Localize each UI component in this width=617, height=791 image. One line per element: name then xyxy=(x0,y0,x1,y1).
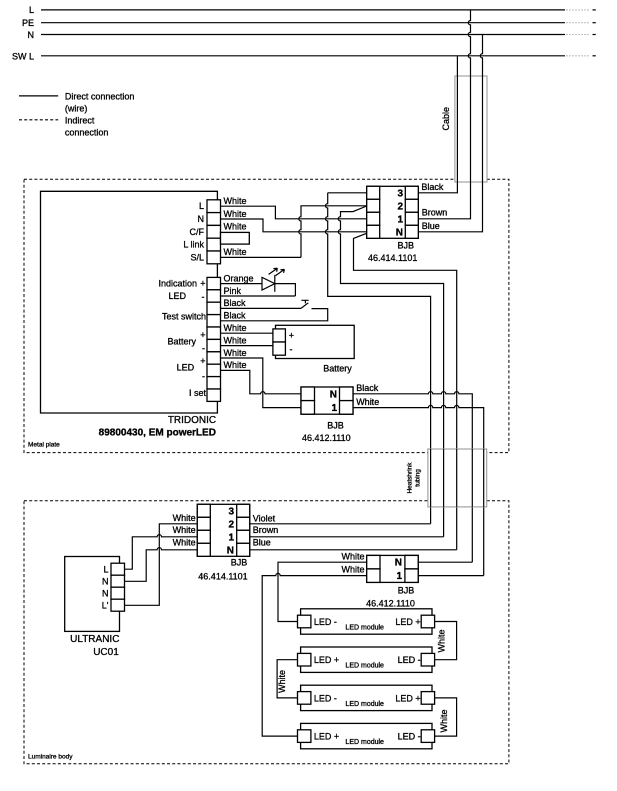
svg-text:BJB: BJB xyxy=(397,240,414,250)
svg-text:White: White xyxy=(173,538,196,548)
svg-text:LED -: LED - xyxy=(314,693,337,703)
wire Blue xyxy=(250,549,457,551)
bus L xyxy=(41,9,565,11)
svg-text:Metal plate: Metal plate xyxy=(28,442,60,449)
svg-text:Brown: Brown xyxy=(253,525,279,535)
svg-text:Indication: Indication xyxy=(158,279,197,289)
wire Brown xyxy=(250,536,444,538)
svg-text:BJB: BJB xyxy=(231,558,248,568)
metal plate dashed enclosure xyxy=(24,179,509,452)
svg-text:tubing: tubing xyxy=(415,469,422,487)
svg-text:White: White xyxy=(224,323,247,333)
wire 1 left to LED module 4 with hop xyxy=(262,573,367,736)
svg-text:White: White xyxy=(439,709,449,732)
svg-text:Black: Black xyxy=(356,383,379,393)
svg-text:White: White xyxy=(277,670,287,693)
wire N left to LED module 1 xyxy=(278,562,367,621)
svg-text:TRIDONIC: TRIDONIC xyxy=(168,415,216,426)
svg-text:LED -: LED - xyxy=(398,732,421,742)
svg-text:46.412.1110: 46.412.1110 xyxy=(366,598,415,608)
wire White N to pinN with hop xyxy=(125,548,198,582)
svg-text:Black: Black xyxy=(421,182,444,192)
wire Orange indication LED anode xyxy=(221,283,263,285)
wire Violet xyxy=(250,523,431,525)
svg-text:Brown: Brown xyxy=(422,208,448,218)
svg-text:PE: PE xyxy=(22,18,34,28)
svg-text:L: L xyxy=(29,5,34,15)
svg-text:L link: L link xyxy=(183,240,204,250)
svg-text:White: White xyxy=(173,513,196,523)
svg-text:L': L' xyxy=(102,600,109,610)
svg-text:connection: connection xyxy=(65,127,109,137)
LED module 1 xyxy=(298,609,435,634)
battery connector xyxy=(273,329,286,355)
wire N drop to BJB pinN (Blue) with hop xyxy=(418,35,482,232)
wire L drop to BJB pin1 (Brown) with hops xyxy=(418,10,470,219)
svg-text:White: White xyxy=(224,348,247,358)
svg-text:White: White xyxy=(224,360,247,370)
svg-text:1: 1 xyxy=(228,533,234,544)
svg-text:Cable: Cable xyxy=(441,107,451,131)
svg-text:N: N xyxy=(396,228,403,239)
svg-text:1: 1 xyxy=(331,403,337,414)
wire White LED- to BJB 1110 pinN with hop xyxy=(221,370,302,393)
svg-text:2: 2 xyxy=(397,202,403,213)
svg-text:N: N xyxy=(395,558,402,569)
svg-text:White: White xyxy=(341,552,364,562)
wire White S/L to pin2 riser V1 xyxy=(221,256,302,258)
svg-text:LED +: LED + xyxy=(395,693,420,703)
legend direct connection xyxy=(19,95,58,97)
wire N right from Black net xyxy=(418,561,472,563)
svg-text:LED +: LED + xyxy=(314,655,339,665)
LED arrows xyxy=(269,268,278,274)
wire Black test switch feed xyxy=(221,307,302,309)
svg-text:BJB: BJB xyxy=(398,586,415,596)
LED module 4 xyxy=(298,723,435,748)
BJB connector 46.412.1110 (metal plate) xyxy=(301,387,353,414)
svg-text:LED: LED xyxy=(177,363,195,373)
svg-text:White: White xyxy=(224,247,247,257)
svg-text:S/L: S/L xyxy=(190,252,204,262)
svg-text:3: 3 xyxy=(228,507,234,518)
indication LED diode xyxy=(262,275,275,292)
riser V4 pinN to luminaire (Blue net) xyxy=(354,233,457,550)
svg-text:White: White xyxy=(341,565,364,575)
svg-text:-: - xyxy=(202,292,205,302)
BJB connector 46.414.1101 (metal plate) xyxy=(367,186,419,238)
riser V3 pin2 to luminaire (Brown net) with hops xyxy=(338,206,443,537)
svg-text:Heatshrink: Heatshrink xyxy=(407,462,414,494)
riser V2 pin3 to luminaire (Violet net) with hops xyxy=(326,193,431,524)
svg-text:I set: I set xyxy=(189,388,207,398)
svg-text:White: White xyxy=(224,209,247,219)
svg-text:+: + xyxy=(200,356,205,366)
riser V1 S/L with hops xyxy=(299,206,367,258)
wire White battery + xyxy=(221,332,273,334)
svg-text:White: White xyxy=(224,335,247,345)
svg-text:Black: Black xyxy=(224,311,247,321)
svg-text:+: + xyxy=(200,279,205,289)
svg-text:LED module: LED module xyxy=(345,701,384,708)
svg-text:White: White xyxy=(173,525,196,535)
svg-text:ULTRANIC: ULTRANIC xyxy=(70,634,119,645)
svg-text:3: 3 xyxy=(397,189,403,200)
svg-text:Blue: Blue xyxy=(253,538,271,548)
svg-text:Pink: Pink xyxy=(224,286,242,296)
svg-text:Violet: Violet xyxy=(253,513,276,523)
svg-text:SW L: SW L xyxy=(12,51,34,61)
wire White L' to pin2 xyxy=(125,524,198,606)
svg-text:LED +: LED + xyxy=(314,732,339,742)
wire White L to pin1 xyxy=(221,206,367,219)
svg-text:Indirect: Indirect xyxy=(65,115,95,125)
svg-text:46.414.1101: 46.414.1101 xyxy=(368,253,417,263)
bus PE xyxy=(41,22,565,24)
wire White L to pin1 with hop xyxy=(125,535,198,570)
heatshrink verticals va vb vc through box xyxy=(431,449,484,507)
svg-text:LED: LED xyxy=(168,291,186,301)
svg-text:LED -: LED - xyxy=(314,617,337,627)
svg-text:L: L xyxy=(199,201,204,211)
svg-text:N: N xyxy=(102,588,109,598)
svg-text:N: N xyxy=(227,546,234,557)
bus N xyxy=(41,34,565,36)
terminal strip 1 (L,N,C/F,L link,S/L) xyxy=(207,200,221,264)
wire White N to pinN xyxy=(221,219,367,232)
wire White module3 to module4 xyxy=(435,698,457,736)
BJB connector 46.414.1101 (luminaire) xyxy=(197,504,249,556)
svg-text:1: 1 xyxy=(397,215,403,226)
wire Black test switch return xyxy=(221,309,328,321)
ULTRANIC terminals xyxy=(111,563,125,611)
svg-text:46.412.1110: 46.412.1110 xyxy=(302,433,351,443)
wire White LED+ to BJB 1110 pin1 xyxy=(221,358,302,408)
svg-text:White: White xyxy=(224,196,247,206)
svg-text:L: L xyxy=(103,564,108,574)
wire Black 1110 N to luminaire with hops xyxy=(353,392,472,563)
test switch symbol xyxy=(301,300,309,308)
svg-text:-: - xyxy=(290,344,293,354)
luminaire body dashed enclosure xyxy=(24,501,509,764)
wire SW L drop to BJB pin3 (Black) xyxy=(418,56,457,193)
heatshrink tubing box xyxy=(428,449,487,507)
BJB connector 46.412.1110 (luminaire) xyxy=(367,555,419,582)
link box C/F to L link xyxy=(221,232,250,244)
terminal strip 2 (indication..I set) xyxy=(207,277,221,401)
svg-text:89800430, EM powerLED: 89800430, EM powerLED xyxy=(99,428,216,439)
ULTRANIC control unit box xyxy=(65,557,120,632)
cable sheath box xyxy=(455,76,487,182)
svg-text:White: White xyxy=(437,629,447,652)
wire White 1110 1 to luminaire with hops xyxy=(353,405,484,575)
svg-text:N: N xyxy=(28,30,35,40)
LED module 2 xyxy=(298,647,435,672)
svg-text:UC01: UC01 xyxy=(93,647,119,658)
legend indirect connection xyxy=(19,119,58,121)
svg-text:Luminaire body: Luminaire body xyxy=(28,754,73,761)
svg-text:Black: Black xyxy=(224,298,247,308)
svg-text:-: - xyxy=(202,344,205,354)
svg-text:2: 2 xyxy=(228,520,234,531)
svg-text:N: N xyxy=(330,389,337,400)
svg-text:Direct connection: Direct connection xyxy=(65,91,135,101)
svg-text:Test switch: Test switch xyxy=(162,312,206,322)
svg-text:BJB: BJB xyxy=(327,421,344,431)
svg-text:N: N xyxy=(102,576,109,586)
wire White module2 to module3 xyxy=(277,660,297,698)
wire White battery - xyxy=(221,345,273,347)
svg-text:+: + xyxy=(289,331,294,341)
svg-text:Orange: Orange xyxy=(224,273,254,283)
wire White module1 to module2 xyxy=(435,622,457,660)
bus SW L xyxy=(41,55,565,57)
wire Pink indication LED return xyxy=(221,295,296,297)
svg-text:Battery: Battery xyxy=(323,364,352,374)
TRIDONIC driver box xyxy=(41,191,218,413)
svg-text:Battery: Battery xyxy=(167,337,196,347)
svg-text:(wire): (wire) xyxy=(65,103,88,113)
svg-text:46.414.1101: 46.414.1101 xyxy=(198,571,247,581)
svg-text:LED -: LED - xyxy=(398,655,421,665)
svg-text:LED +: LED + xyxy=(395,617,420,627)
svg-text:+: + xyxy=(200,330,205,340)
wire 1 right from White net xyxy=(418,575,484,577)
svg-text:White: White xyxy=(224,222,247,232)
svg-text:-: - xyxy=(202,371,205,381)
wire diode cathode to Pink xyxy=(275,284,296,296)
svg-text:LED module: LED module xyxy=(345,663,384,670)
svg-text:LED module: LED module xyxy=(345,625,384,632)
svg-text:Blue: Blue xyxy=(422,221,440,231)
svg-text:C/F: C/F xyxy=(190,227,205,237)
svg-text:LED module: LED module xyxy=(345,739,384,746)
LED module 3 xyxy=(298,685,435,710)
svg-text:White: White xyxy=(356,397,379,407)
svg-text:N: N xyxy=(198,214,205,224)
battery box xyxy=(276,325,355,358)
svg-text:1: 1 xyxy=(396,571,402,582)
